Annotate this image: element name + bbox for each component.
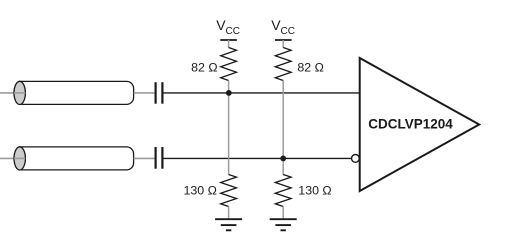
label 82 ohm (column 2) (297, 60, 324, 74)
svg-text:82 Ω: 82 Ω (297, 60, 324, 74)
VCC symbol (column 1) (216, 17, 240, 48)
resistor 82 ohm (column 2, pull-up) (275, 48, 291, 81)
label 82 ohm (column 1) (191, 60, 218, 74)
wire: bottom signal line to inverting input bubble (164, 157, 352, 159)
svg-text:82 Ω: 82 Ω (191, 60, 218, 74)
ground (column 1) (215, 219, 242, 230)
resistor 130 ohm (column 2, pull-down) (275, 175, 291, 220)
label CDCLVP1204 (368, 115, 453, 131)
node: junction dot on top line (column 1) (226, 90, 232, 96)
node: junction dot on bottom line (column 2) (280, 156, 286, 162)
svg-text:130 Ω: 130 Ω (184, 184, 217, 198)
wire: top coax to capacitor C1 (134, 92, 155, 94)
buffer U1 triangle CDCLVP1204 (360, 58, 480, 191)
wire: column 2 vertical crossing top line (no junction) (282, 81, 284, 159)
inverting input bubble (352, 155, 360, 163)
wire: bottom coax to capacitor C2 (134, 157, 155, 159)
resistor 130 ohm (column 1, pull-down) (221, 175, 237, 220)
ground (column 2) (270, 219, 297, 230)
label 130 ohm (column 1) (184, 184, 217, 198)
wire: input stub to top coax (0, 92, 25, 94)
wire: column 2 dot to 130 ohm (282, 158, 284, 174)
svg-text:CDCLVP1204: CDCLVP1204 (368, 115, 453, 131)
coax cable (bottom transmission line) (14, 147, 134, 170)
capacitor C1 (AC coupling, top) (156, 82, 163, 104)
svg-text:130 Ω: 130 Ω (298, 184, 331, 198)
resistor 82 ohm (column 1, pull-up) (221, 48, 237, 93)
VCC symbol (column 2) (271, 17, 295, 48)
capacitor C2 (AC coupling, bottom) (156, 147, 163, 169)
wire: column 1 vertical crossing bottom line (no junction) (228, 93, 230, 175)
coax cable (top transmission line) (14, 81, 134, 104)
wire: top signal line to buffer input (164, 92, 360, 94)
wire: input stub to bottom coax (0, 157, 25, 159)
label 130 ohm (column 2) (298, 184, 331, 198)
